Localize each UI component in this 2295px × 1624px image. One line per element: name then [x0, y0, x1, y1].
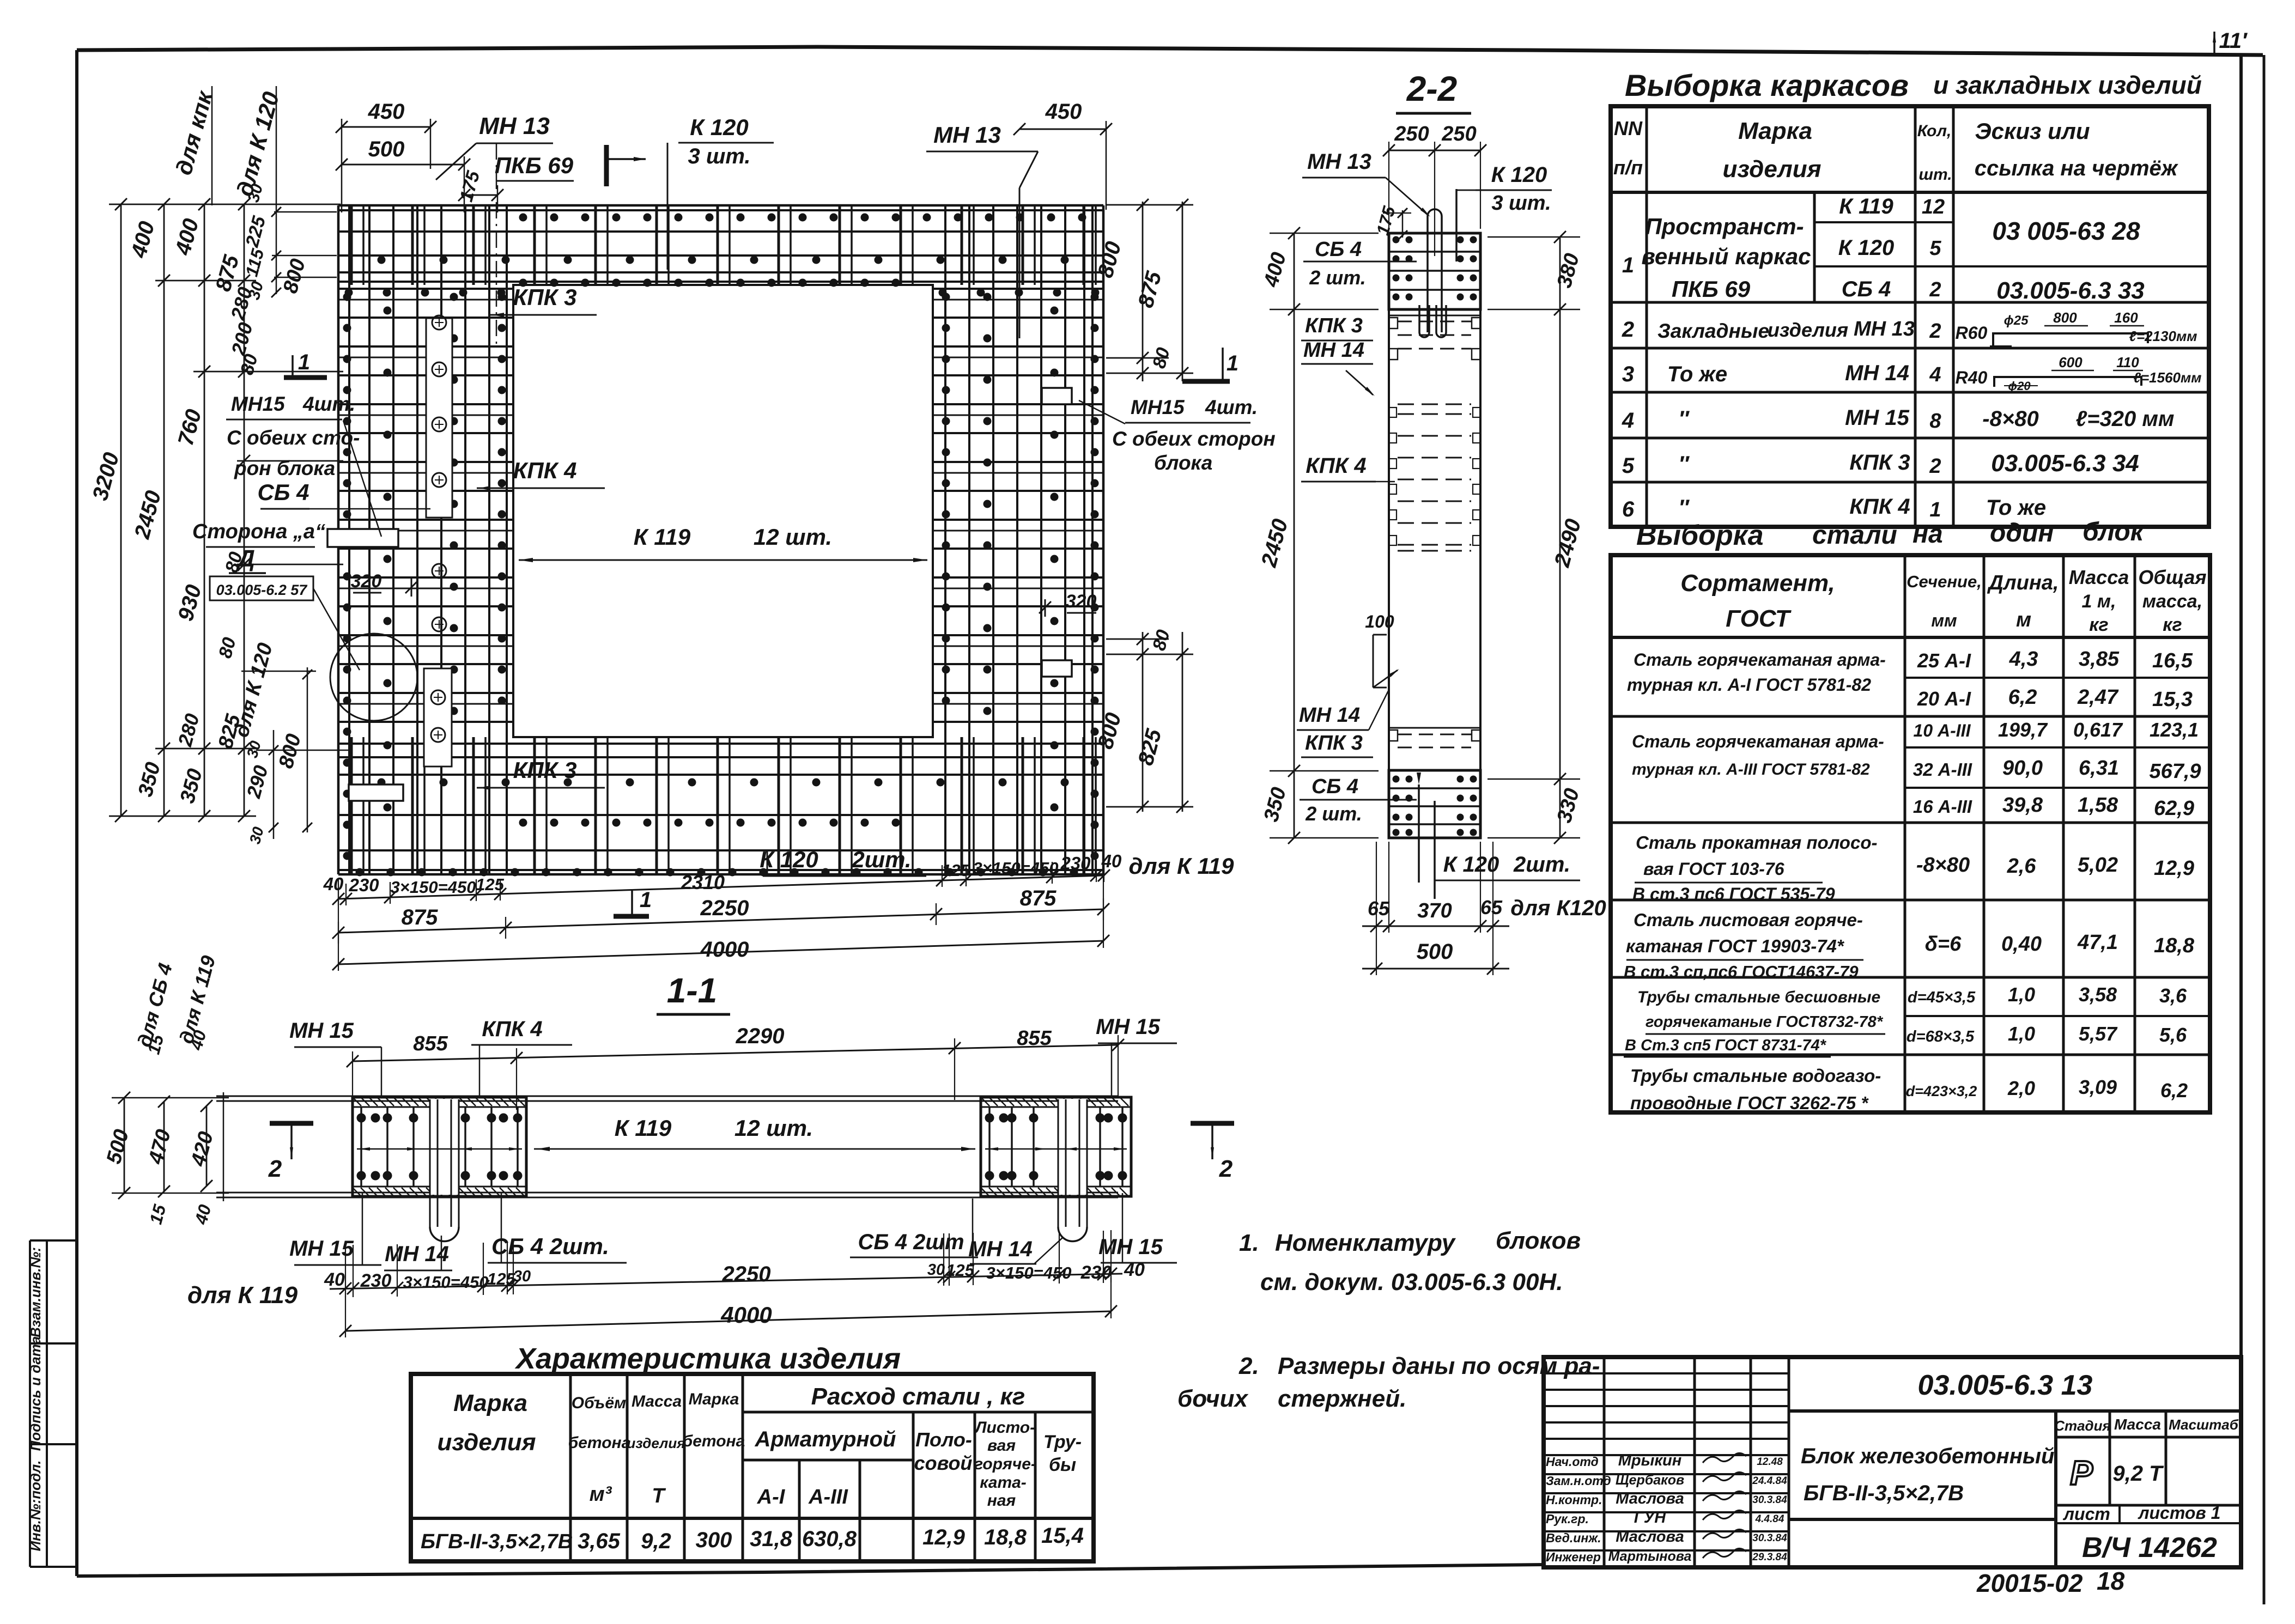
svg-text:К 120: К 120 [1491, 163, 1547, 187]
svg-text:4шт.: 4шт. [1205, 396, 1258, 418]
svg-text:МН 15: МН 15 [1096, 1015, 1161, 1039]
left margin stamp strip [27, 1240, 77, 1567]
svg-text:СБ 4 2шт: СБ 4 2шт [858, 1230, 964, 1254]
svg-text:СБ 4 2шт.: СБ 4 2шт. [491, 1233, 609, 1259]
svg-text:ГОСТ: ГОСТ [1726, 605, 1792, 632]
svg-text:18,8: 18,8 [2154, 934, 2195, 957]
svg-text:Листо-: Листо- [974, 1419, 1035, 1437]
svg-text:03.005-6.3 34: 03.005-6.3 34 [1991, 450, 2139, 477]
svg-text:Сечение,: Сечение, [1907, 572, 1982, 591]
svg-text:16,5: 16,5 [2152, 649, 2193, 672]
svg-text:То же: То же [1667, 362, 1727, 386]
section 1-1 top dimensions 855 2290 855 [347, 1024, 1124, 1113]
svg-text:2: 2 [1622, 318, 1634, 342]
title block name cell [1789, 1411, 2056, 1567]
table 2 grid [1611, 555, 2210, 1112]
svg-text:Поло-: Поло- [915, 1428, 972, 1451]
svg-text:1: 1 [298, 350, 310, 374]
plan view outer boundary [338, 205, 1103, 874]
svg-text:блока: блока [1154, 452, 1212, 474]
svg-text:20 А-I: 20 А-I [1917, 688, 1971, 710]
svg-text:25 А-I: 25 А-I [1917, 649, 1971, 672]
svg-text:МН 15: МН 15 [1098, 1235, 1163, 1259]
svg-text:изделия: изделия [1768, 319, 1848, 341]
svg-text:СБ 4: СБ 4 [1312, 775, 1358, 798]
svg-text:18: 18 [2097, 1567, 2125, 1595]
svg-text:2 шт.: 2 шт. [1309, 266, 1366, 289]
svg-text:МН15: МН15 [1131, 396, 1185, 418]
svg-text:30: 30 [513, 1268, 531, 1285]
svg-text:90,0: 90,0 [2002, 757, 2043, 780]
plan view inner opening [513, 285, 933, 737]
svg-text:6,2: 6,2 [2160, 1079, 2188, 1102]
svg-text:совой: совой [914, 1452, 973, 1474]
embedded plate SB4 lower with holes [424, 668, 452, 767]
section 2-2 top labels [1302, 150, 1552, 240]
svg-text:шт.: шт. [1918, 166, 1952, 184]
svg-text:В Ст.3 сп5 ГОСТ 8731-74*: В Ст.3 сп5 ГОСТ 8731-74* [1625, 1037, 1827, 1054]
section 1-1 center bar K119 [534, 1115, 975, 1151]
svg-text:Зам.н.отд: Зам.н.отд [1546, 1474, 1611, 1488]
svg-text:масса,: масса, [2142, 591, 2202, 612]
svg-text:5,02: 5,02 [2078, 854, 2118, 877]
svg-text:венный каркас: венный каркас [1642, 244, 1811, 269]
label 320 left [351, 571, 417, 597]
svg-text:Номенклатуру: Номенклатуру [1275, 1230, 1456, 1256]
plan left band rebar grid [338, 205, 513, 874]
section mark 1 left [284, 350, 327, 378]
svg-text:КПК 4: КПК 4 [1306, 454, 1366, 478]
svg-text:блоков: блоков [1496, 1227, 1581, 1254]
section 1-1 bottom labels [289, 1193, 1177, 1270]
characteristics table data row [421, 1524, 1084, 1553]
svg-text:30: 30 [927, 1261, 945, 1279]
svg-text:450: 450 [368, 100, 405, 124]
svg-text:Н.контр.: Н.контр. [1546, 1493, 1602, 1507]
svg-text:6: 6 [1622, 497, 1635, 521]
svg-text:2: 2 [1929, 320, 1941, 343]
svg-text:125: 125 [942, 861, 970, 880]
svg-text:2: 2 [1219, 1155, 1233, 1182]
MN13 anchor loop in section 2-2 [1419, 189, 1456, 337]
characteristics table title [514, 1342, 901, 1375]
svg-text:ℓ=2130мм: ℓ=2130мм [2129, 328, 2197, 344]
svg-text:для К 119: для К 119 [187, 1282, 298, 1309]
svg-text:СБ 4: СБ 4 [1315, 238, 1362, 261]
svg-text:К 120: К 120 [690, 114, 749, 140]
svg-text:855: 855 [413, 1032, 448, 1055]
svg-text:2,0: 2,0 [2007, 1077, 2035, 1099]
svg-text:Масса: Масса [2069, 566, 2129, 588]
svg-text:стали: стали [1812, 521, 1897, 550]
section 2-2 dashed zone KPK3 upper [1389, 315, 1480, 360]
svg-text:КПК 3: КПК 3 [1305, 314, 1363, 337]
svg-text:4шт.: 4шт. [302, 393, 355, 415]
svg-text:5: 5 [1622, 454, 1635, 478]
svg-text:СБ 4: СБ 4 [257, 479, 309, 505]
svg-text:1 м,: 1 м, [2082, 591, 2116, 612]
svg-text:МН 14: МН 14 [1303, 339, 1364, 362]
note 2 [1177, 1353, 1600, 1412]
svg-text:Марка: Марка [689, 1390, 739, 1408]
svg-text:3,09: 3,09 [2079, 1076, 2117, 1098]
svg-text:3×150=450: 3×150=450 [391, 878, 476, 897]
svg-text:15,4: 15,4 [1041, 1524, 1084, 1548]
svg-text:БГВ-II-3,5×2,7В: БГВ-II-3,5×2,7В [1804, 1481, 1964, 1505]
svg-text:1,0: 1,0 [2008, 983, 2035, 1006]
table 1 header text [1613, 117, 2179, 184]
svg-text:39,8: 39,8 [2002, 794, 2043, 817]
svg-text:450: 450 [1045, 100, 1082, 124]
plan bottom band rebar grid [338, 737, 1103, 877]
table 2 group A steel AI [1627, 648, 2193, 711]
svg-text:Взам.инв.№:: Взам.инв.№: [27, 1247, 44, 1337]
svg-text:ПКБ 69: ПКБ 69 [1672, 276, 1751, 302]
svg-text:1,58: 1,58 [2078, 794, 2118, 817]
svg-text:03.005-6.3 33: 03.005-6.3 33 [1996, 277, 2145, 304]
svg-text:12 шт.: 12 шт. [754, 524, 832, 550]
svg-text:″: ″ [1678, 407, 1690, 431]
svg-text:199,7: 199,7 [1998, 719, 2048, 741]
section 1-1 section marks 2 [268, 1123, 1234, 1182]
svg-text:Трубы стальные бесшовные: Трубы стальные бесшовные [1637, 988, 1880, 1006]
section 2-2 bottom labels and dims [1362, 842, 1606, 975]
svg-text:Расход стали , кг: Расход стали , кг [811, 1383, 1025, 1410]
svg-text:Масса: Масса [632, 1392, 682, 1410]
svg-text:3,65: 3,65 [578, 1529, 621, 1553]
small cover tick lines top-left [271, 207, 337, 297]
svg-text:МН 13: МН 13 [1307, 150, 1371, 174]
svg-text:Выборка: Выборка [1636, 520, 1764, 551]
svg-text:стержней.: стержней. [1278, 1385, 1406, 1412]
svg-text:d=45×3,5: d=45×3,5 [1908, 989, 1976, 1006]
svg-text:ссылка на чертёж: ссылка на чертёж [1975, 156, 2179, 180]
svg-text:КПК 3: КПК 3 [513, 757, 577, 783]
svg-text:Сталь горячекатаная арма-: Сталь горячекатаная арма- [1632, 732, 1884, 751]
svg-text:Щербаков: Щербаков [1616, 1473, 1684, 1488]
svg-text:Сталь листовая горяче-: Сталь листовая горяче- [1634, 910, 1863, 930]
svg-text:40: 40 [1124, 1260, 1145, 1280]
svg-text:4000: 4000 [700, 938, 749, 962]
svg-text:То же: То же [1986, 496, 2046, 520]
svg-text:МН 15: МН 15 [289, 1019, 354, 1043]
svg-text:Трубы стальные водогазо-: Трубы стальные водогазо- [1630, 1066, 1881, 1086]
svg-text:″: ″ [1678, 452, 1690, 476]
svg-text:3 шт.: 3 шт. [688, 144, 750, 168]
svg-text:230: 230 [360, 1270, 392, 1291]
svg-text:один: один [1990, 519, 2054, 548]
section 1-1 title [657, 971, 730, 1014]
svg-text:8: 8 [1929, 410, 1941, 433]
svg-text:2 шт.: 2 шт. [1305, 802, 1362, 825]
section 1-1 chord lines [216, 1092, 1118, 1201]
table 1 row 3 with anchor sketch MN14 [1622, 354, 2202, 393]
svg-text:Стадия: Стадия [2054, 1418, 2111, 1434]
svg-text:500: 500 [1417, 940, 1453, 964]
section 1-1 left block [353, 1097, 526, 1242]
section 2-2 top block SB4 [1389, 233, 1480, 309]
svg-text:МН 13: МН 13 [479, 113, 550, 139]
table 2 group E seamless pipes [1624, 983, 2187, 1057]
svg-text:875: 875 [402, 905, 438, 929]
table 1 row 2 with anchor sketch MN13 [1622, 309, 2197, 346]
svg-text:Сторона „а“: Сторона „а“ [192, 520, 325, 543]
label MN15 4pcs left text block [226, 393, 381, 537]
svg-text:″: ″ [1678, 496, 1690, 520]
svg-text:ϕ25: ϕ25 [2004, 313, 2029, 328]
svg-text:катаная ГОСТ 19903-74*: катаная ГОСТ 19903-74* [1626, 936, 1845, 956]
svg-text:9,2 Т: 9,2 Т [2112, 1462, 2164, 1486]
svg-text:31,8: 31,8 [750, 1527, 793, 1551]
section 2-2 labels KPK3 MN14 upper [1301, 314, 1375, 396]
svg-text:2,47: 2,47 [2077, 686, 2119, 709]
section mark 1 bottom [614, 888, 652, 916]
svg-text:12,9: 12,9 [922, 1525, 966, 1549]
svg-text:блок: блок [2082, 518, 2145, 546]
svg-text:МН 14: МН 14 [1299, 704, 1360, 727]
svg-text:20015-02: 20015-02 [1976, 1569, 2083, 1597]
svg-text:для К 119: для К 119 [1129, 853, 1235, 879]
svg-text:5,6: 5,6 [2159, 1024, 2187, 1046]
svg-text:Тру-: Тру- [1043, 1432, 1082, 1452]
svg-text:6,31: 6,31 [2079, 757, 2119, 780]
plan right band rebar grid [933, 205, 1103, 874]
label MN13 left with leader [436, 113, 553, 349]
svg-text:КПК 3: КПК 3 [513, 284, 577, 310]
svg-text:Пространст-: Пространст- [1645, 214, 1804, 239]
svg-text:Мрыкин: Мрыкин [1618, 1452, 1682, 1469]
left rotated dimension labels [88, 182, 349, 846]
svg-text:1: 1 [1227, 351, 1238, 375]
svg-text:А-I: А-I [757, 1486, 786, 1509]
svg-text:500: 500 [368, 137, 405, 161]
svg-text:бетона: бетона [683, 1432, 745, 1450]
svg-text:Марка: Марка [1738, 118, 1812, 144]
svg-text:3: 3 [1622, 362, 1634, 386]
svg-text:МН 15: МН 15 [1845, 406, 1910, 430]
table 2 group F water-gas pipes [1630, 1066, 2188, 1113]
svg-text:2250: 2250 [722, 1262, 771, 1286]
svg-text:2: 2 [1929, 455, 1941, 478]
svg-text:ката-: ката- [980, 1474, 1027, 1492]
svg-text:6,2: 6,2 [2008, 686, 2037, 709]
svg-text:230: 230 [1080, 1262, 1112, 1283]
svg-text:R60: R60 [1956, 323, 1988, 343]
svg-text:4000: 4000 [720, 1302, 772, 1328]
svg-text:Сортамент,: Сортамент, [1680, 570, 1835, 597]
svg-text:2: 2 [268, 1155, 282, 1182]
table 2 header [1680, 566, 2206, 635]
svg-text:Вед.инж.: Вед.инж. [1546, 1531, 1601, 1545]
svg-text:3×150=450: 3×150=450 [973, 859, 1059, 878]
svg-text:2-2: 2-2 [1406, 69, 1458, 108]
svg-text:4.4.84: 4.4.84 [1755, 1513, 1784, 1525]
svg-text:2шт.: 2шт. [851, 847, 911, 872]
svg-text:КПК 4: КПК 4 [513, 458, 577, 483]
svg-text:на: на [1912, 520, 1943, 549]
title block signature grid [1544, 1357, 1789, 1567]
svg-text:875: 875 [1020, 886, 1057, 910]
label KPK4 with leader [477, 458, 605, 490]
svg-text:-8×80: -8×80 [1982, 407, 2038, 431]
label PKB69 with leader [495, 153, 574, 181]
table 1 title [1625, 68, 2202, 102]
title block stage mass scale [2054, 1411, 2241, 1505]
table 1 row 4 [1622, 406, 2175, 433]
section 1-1 top labels [289, 1015, 1177, 1098]
table 1 row 1 [1622, 194, 2145, 304]
table 1 row 6 [1622, 495, 2046, 521]
svg-text:2шт.: 2шт. [1513, 853, 1570, 877]
svg-text:МН 15: МН 15 [289, 1237, 354, 1261]
sheet number 11 mark [2213, 29, 2248, 54]
dimension 500 top-left [336, 137, 470, 212]
svg-text:230: 230 [348, 875, 379, 895]
svg-text:855: 855 [1017, 1027, 1052, 1050]
svg-text:КПК 4: КПК 4 [482, 1017, 542, 1041]
svg-text:листов 1: листов 1 [2138, 1503, 2221, 1523]
svg-text:МН 14: МН 14 [385, 1242, 449, 1266]
svg-text:А-III: А-III [808, 1486, 848, 1509]
svg-text:СБ 4: СБ 4 [1842, 277, 1891, 301]
label K120 2pcs bottom with leader [760, 847, 926, 876]
svg-text:изделия: изделия [627, 1435, 685, 1451]
svg-text:03.005-6.3 13: 03.005-6.3 13 [1918, 1370, 2093, 1401]
svg-text:100: 100 [1365, 612, 1394, 631]
svg-text:Общая: Общая [2138, 566, 2206, 588]
svg-text:10 А-III: 10 А-III [1914, 721, 1971, 740]
svg-text:ℓ=1560мм: ℓ=1560мм [2134, 369, 2202, 386]
svg-text:320: 320 [1066, 591, 1097, 612]
svg-text:Марка: Марка [453, 1390, 527, 1416]
svg-text:9,2: 9,2 [641, 1529, 671, 1553]
svg-text:Масштаб: Масштаб [2169, 1416, 2239, 1433]
svg-text:Объём: Объём [572, 1394, 626, 1412]
embedded plates MN15 right [1042, 388, 1072, 677]
section mark 1 right [1182, 348, 1238, 381]
svg-text:1: 1 [1622, 253, 1634, 277]
svg-text:К 119: К 119 [634, 524, 691, 550]
stamp 20015-02 18 [1976, 1567, 2125, 1597]
svg-text:40: 40 [1101, 851, 1122, 871]
label K120 3pcs top with leader [667, 114, 774, 270]
svg-text:18,8: 18,8 [984, 1525, 1027, 1549]
svg-text:30.3.84: 30.3.84 [1752, 1494, 1787, 1506]
svg-text:турная кл. А-III ГОСТ 5781-82: турная кл. А-III ГОСТ 5781-82 [1632, 761, 1870, 778]
svg-text:Блок железобетонный: Блок железобетонный [1801, 1444, 2055, 1468]
dimension 450 top-right [1013, 100, 1112, 210]
svg-text:бетона: бетона [568, 1434, 631, 1452]
note 1 [1239, 1227, 1581, 1295]
svg-text:Эскиз или: Эскиз или [1975, 118, 2090, 144]
svg-text:250: 250 [1394, 123, 1429, 145]
svg-text:1.: 1. [1239, 1230, 1259, 1256]
label Storona a [192, 520, 325, 547]
svg-text:d=423×3,2: d=423×3,2 [1906, 1083, 1977, 1099]
section 2-2 bottom block SB4 [1389, 770, 1480, 899]
svg-text:ПКБ 69: ПКБ 69 [495, 153, 574, 178]
svg-text:12: 12 [1922, 196, 1945, 218]
svg-text:К 119: К 119 [1839, 194, 1893, 218]
section 2-2 middle dashed zone KPK4 [1389, 404, 1480, 551]
svg-text:2250: 2250 [700, 896, 749, 920]
svg-text:125: 125 [946, 1261, 974, 1280]
svg-text:03.005-6.2 57: 03.005-6.2 57 [216, 582, 308, 598]
svg-text:125: 125 [487, 1269, 515, 1288]
title block sheet row [2056, 1503, 2241, 1564]
section 2-2 top dimension 250 250 [1383, 123, 1486, 256]
svg-text:2310: 2310 [681, 871, 725, 893]
svg-text:КПК 4: КПК 4 [1849, 495, 1910, 519]
svg-text:В ст.3 пс6 ГОСТ 535-79: В ст.3 пс6 ГОСТ 535-79 [1632, 884, 1835, 904]
table 1 grid [1611, 106, 2209, 527]
svg-text:п/п: п/п [1613, 156, 1643, 179]
section 2-2 right dim chain [1487, 231, 1586, 844]
svg-text:2.: 2. [1238, 1353, 1259, 1379]
section 2-2 label KPK4 [1301, 454, 1395, 482]
svg-text:вая ГОСТ 103-76: вая ГОСТ 103-76 [1643, 859, 1784, 879]
svg-text:03 005-63 28: 03 005-63 28 [1992, 217, 2140, 245]
svg-text:3,58: 3,58 [2079, 983, 2117, 1006]
section 2-2 title [1396, 69, 1471, 113]
svg-text:Инв.№:подл.: Инв.№:подл. [27, 1460, 44, 1551]
svg-text:МН 13: МН 13 [933, 122, 1001, 148]
svg-text:1-1: 1-1 [667, 971, 718, 1010]
detail circle D [210, 545, 417, 721]
svg-text:567,9: 567,9 [2149, 760, 2201, 783]
svg-text:МН15: МН15 [231, 393, 286, 415]
section 2-2 column body [1389, 233, 1480, 838]
svg-text:-8×80: -8×80 [1916, 854, 1970, 877]
svg-text:ℓ=320 мм: ℓ=320 мм [2075, 407, 2174, 431]
svg-text:вая: вая [987, 1437, 1016, 1455]
svg-text:КПК 3: КПК 3 [1849, 451, 1910, 475]
svg-text:Кол,: Кол, [1917, 122, 1952, 140]
center dimension K119 12 pcs [519, 524, 927, 562]
svg-text:К 120: К 120 [760, 847, 818, 872]
svg-text:630,8: 630,8 [802, 1527, 857, 1551]
embedded plate SB4 upper with holes [426, 315, 452, 631]
svg-text:R40: R40 [1956, 368, 1988, 387]
label KPK3 upper with leader [490, 284, 597, 317]
section 2-2 MN14 lower bracket and label [1297, 612, 1399, 730]
svg-text:ГУН: ГУН [1634, 1509, 1666, 1526]
svg-text:изделия: изделия [437, 1429, 536, 1456]
svg-text:Характеристика изделия: Характеристика изделия [514, 1342, 901, 1375]
svg-text:горячекатаные ГОСТ8732-78*: горячекатаные ГОСТ8732-78* [1646, 1013, 1884, 1031]
svg-text:3×150=450: 3×150=450 [403, 1273, 489, 1292]
title block signatures text [1546, 1452, 1787, 1564]
svg-text:В/Ч 14262: В/Ч 14262 [2082, 1532, 2217, 1564]
svg-text:турная кл. А-I ГОСТ 5781-82: турная кл. А-I ГОСТ 5781-82 [1627, 675, 1871, 695]
rotated labels dlya KPK and dlya K120 [171, 86, 217, 205]
svg-text:125: 125 [476, 875, 504, 894]
svg-text:КПК 3: КПК 3 [1305, 732, 1363, 755]
characteristics table grid [411, 1374, 1094, 1561]
svg-text:δ=6: δ=6 [1925, 933, 1962, 956]
svg-text:и закладных изделий: и закладных изделий [1933, 71, 2202, 99]
svg-text:300: 300 [696, 1528, 732, 1552]
svg-text:горяче-: горяче- [974, 1455, 1036, 1473]
svg-text:Мартынова: Мартынова [1608, 1549, 1692, 1564]
right dimension chains [1094, 199, 1193, 813]
table 2 group B steel AIII [1632, 719, 2201, 820]
plan top band rebar grid [338, 205, 1103, 287]
svg-text:бочих: бочих [1177, 1385, 1248, 1412]
svg-text:1: 1 [1929, 498, 1941, 521]
svg-text:40: 40 [324, 1269, 345, 1290]
dimension 450 top-left [336, 100, 436, 212]
